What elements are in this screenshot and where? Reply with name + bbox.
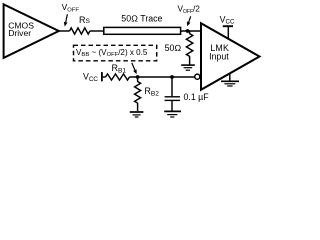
ground G3 (capacitor) [164, 110, 181, 112]
50 ohm trace (transmission line) [104, 27, 181, 34]
capacitor C1 0.1uF [171, 77, 173, 96]
VCC supply bar (bias) [101, 72, 103, 81]
svg-text:50Ω: 50Ω [165, 43, 182, 53]
svg-text:0.1 µF: 0.1 µF [184, 92, 210, 102]
wire bias rail to input bubble [130, 76, 195, 78]
LMK input buffer U2 (triangle) [201, 23, 260, 90]
input bubble (complementary input) [195, 74, 200, 79]
wire VCC bar to RB1 [103, 76, 106, 78]
CMOS driver U1 (triangle) [4, 4, 59, 58]
bias note box (dashed) [74, 45, 157, 61]
resistor Rs [70, 28, 90, 34]
resistor RB2 (vertical) [135, 77, 141, 111]
ground G1 (termination) [181, 64, 195, 66]
ground G4 (LMK) [229, 73, 231, 81]
note pointer arrow [132, 63, 135, 70]
resistor 50 ohm termination (vertical) [186, 31, 192, 65]
svg-text:50Ω Trace: 50Ω Trace [121, 13, 162, 23]
node junction dot N2 [136, 75, 140, 79]
wire trace to LMK input [181, 30, 201, 32]
VCC supply bar (LMK) [223, 25, 233, 27]
resistor RB1 [106, 74, 130, 80]
ground G2 (RB2) [130, 111, 144, 113]
node junction dot N1 [186, 29, 190, 33]
svg-text:Driver: Driver [8, 28, 31, 38]
wire VCC to LMK [227, 26, 229, 39]
node junction dot N3 [170, 75, 174, 79]
VOFF pointer arrow [66, 14, 68, 22]
svg-text:Input: Input [209, 52, 229, 62]
VOFF/2 pointer arrow [189, 16, 191, 22]
wire Rs to trace [90, 30, 104, 32]
wire driver output [59, 30, 70, 32]
